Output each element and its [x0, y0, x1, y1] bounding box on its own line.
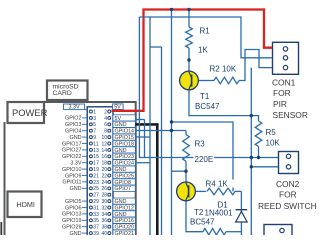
svg-text:3: 3: [93, 116, 96, 122]
svg-text:R1: R1: [200, 27, 211, 36]
svg-text:GPIO7: GPIO7: [115, 186, 131, 192]
svg-text:31: 31: [93, 205, 99, 211]
svg-text:28: 28: [101, 193, 107, 199]
svg-text:30: 30: [101, 199, 107, 205]
svg-text:GPIO17: GPIO17: [62, 141, 81, 147]
svg-text:6: 6: [104, 122, 107, 128]
svg-text:15: 15: [93, 154, 99, 160]
svg-text:SENSOR: SENSOR: [273, 110, 308, 120]
svg-text:R5: R5: [266, 128, 277, 137]
svg-text:12: 12: [101, 141, 107, 147]
svg-text:FOR: FOR: [273, 88, 291, 98]
svg-text:PIR: PIR: [273, 99, 287, 109]
svg-text:1K: 1K: [198, 46, 208, 55]
svg-text:18: 18: [101, 161, 107, 167]
svg-text:36: 36: [101, 218, 107, 224]
svg-text:T1: T1: [200, 92, 210, 101]
svg-text:33: 33: [93, 212, 99, 218]
svg-text:29: 29: [93, 199, 99, 205]
svg-text:R2 10K: R2 10K: [210, 65, 237, 74]
svg-text:25: 25: [93, 186, 99, 192]
svg-text:REED SWITCH: REED SWITCH: [258, 201, 317, 211]
svg-text:GPIO26: GPIO26: [62, 225, 81, 231]
svg-text:BC547: BC547: [190, 218, 215, 227]
svg-text:CON1: CON1: [272, 77, 296, 87]
svg-text:9: 9: [93, 135, 96, 141]
svg-text:GPIO21: GPIO21: [115, 231, 134, 235]
svg-text:GND: GND: [70, 231, 82, 235]
svg-text:5: 5: [93, 122, 96, 128]
svg-text:7: 7: [93, 129, 96, 135]
svg-text:40: 40: [101, 231, 107, 235]
svg-text:38: 38: [101, 225, 107, 231]
svg-text:220E: 220E: [195, 155, 214, 164]
svg-text:22: 22: [101, 173, 107, 179]
svg-text:GPIO4: GPIO4: [65, 129, 81, 135]
svg-text:3.3V: 3.3V: [70, 161, 81, 167]
svg-text:CON2: CON2: [276, 179, 300, 189]
svg-text:14: 14: [101, 148, 107, 154]
svg-text:BC547: BC547: [195, 102, 220, 111]
svg-text:FOR: FOR: [279, 190, 297, 200]
svg-text:R4 1K: R4 1K: [206, 180, 229, 189]
svg-text:5V: 5V: [114, 105, 121, 111]
svg-text:34: 34: [101, 212, 107, 218]
svg-text:1N4001: 1N4001: [205, 209, 234, 218]
svg-text:GPIO27: GPIO27: [62, 148, 81, 154]
svg-text:2: 2: [104, 109, 107, 115]
svg-text:19: 19: [93, 167, 99, 173]
svg-text:4: 4: [104, 116, 107, 122]
svg-text:1: 1: [93, 109, 96, 115]
svg-text:3.3V: 3.3V: [68, 105, 79, 111]
svg-text:GPIO6: GPIO6: [65, 205, 81, 211]
svg-text:8: 8: [104, 129, 107, 135]
svg-text:CARD: CARD: [53, 90, 72, 97]
svg-text:10: 10: [101, 135, 107, 141]
svg-text:32: 32: [101, 205, 107, 211]
svg-text:24: 24: [101, 180, 107, 186]
svg-text:GPIO3: GPIO3: [65, 122, 81, 128]
svg-text:35: 35: [93, 218, 99, 224]
svg-text:R3: R3: [195, 140, 206, 149]
svg-text:POWER: POWER: [12, 107, 48, 118]
svg-text:GPIO19: GPIO19: [62, 218, 81, 224]
svg-text:GND: GND: [70, 135, 82, 141]
svg-text:26: 26: [101, 186, 107, 192]
svg-text:GPIO5: GPIO5: [65, 199, 81, 205]
svg-text:21: 21: [93, 173, 99, 179]
svg-text:13: 13: [93, 148, 99, 154]
svg-text:23: 23: [93, 180, 99, 186]
svg-text:GPIO9: GPIO9: [65, 173, 81, 179]
svg-text:11: 11: [93, 141, 98, 147]
svg-text:37: 37: [93, 225, 99, 231]
svg-text:GPIO2: GPIO2: [65, 116, 81, 122]
svg-text:20: 20: [101, 167, 107, 173]
svg-text:GND: GND: [70, 186, 82, 192]
svg-text:HDMI: HDMI: [17, 200, 35, 209]
svg-text:10K: 10K: [266, 139, 281, 148]
svg-text:T2: T2: [194, 208, 204, 217]
svg-text:39: 39: [93, 231, 99, 235]
svg-text:16: 16: [101, 154, 107, 160]
svg-text:GPIO10: GPIO10: [62, 167, 81, 173]
svg-text:27: 27: [93, 193, 99, 199]
svg-text:17: 17: [93, 161, 99, 167]
svg-text:GPIO22: GPIO22: [62, 154, 81, 160]
svg-text:GPIO13: GPIO13: [62, 212, 81, 218]
svg-text:GPIO11: GPIO11: [62, 180, 81, 186]
